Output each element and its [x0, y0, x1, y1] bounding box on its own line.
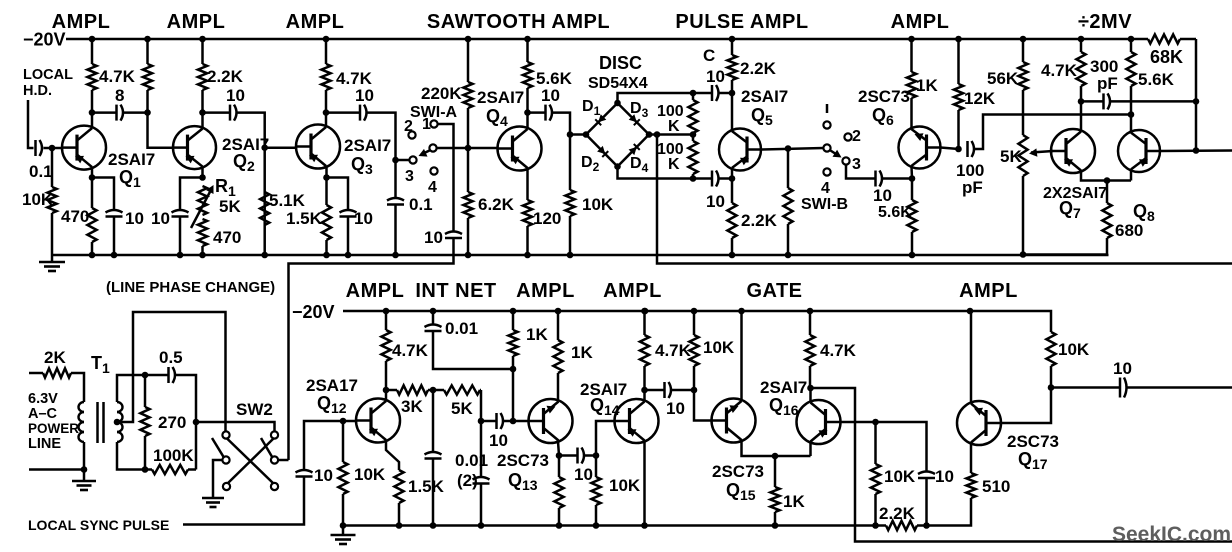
- junction on -20V rail: [465, 36, 472, 43]
- junction Q13 emitter node: [556, 452, 563, 459]
- capacitor 0.01 number two: [473, 477, 490, 484]
- label DISC: [599, 53, 642, 73]
- junction Q4 base node: [465, 145, 472, 152]
- capacitor 10 Q3 coupling: [360, 105, 367, 121]
- junction on -20V rail: [955, 36, 962, 43]
- contact mid-right of SW2: [271, 456, 278, 463]
- svg-text:2.2K: 2.2K: [740, 59, 777, 78]
- svg-text:10K: 10K: [582, 195, 614, 214]
- contact bottom-right of SW2: [271, 483, 278, 490]
- resistor 10K Q17: [1046, 332, 1055, 388]
- junction on lower rail: [510, 308, 517, 315]
- resistor 120 Q4 emitter: [523, 169, 532, 255]
- svg-text:10: 10: [541, 86, 560, 105]
- svg-text:6.2K: 6.2K: [478, 195, 515, 214]
- wire local h.d. input drop: [28, 100, 34, 148]
- svg-text:AMPL: AMPL: [603, 280, 662, 302]
- svg-text:4.7K: 4.7K: [820, 341, 857, 360]
- junction common emitter node: [1104, 177, 1111, 184]
- svg-text:0.5: 0.5: [159, 348, 183, 367]
- wire lower -20V rail: [343, 311, 1051, 332]
- wire cap down across rail to lower run: [289, 239, 454, 461]
- pole of SW1-A: [429, 144, 436, 151]
- svg-text:SD54X4: SD54X4: [588, 75, 648, 92]
- junction Q12 collector node: [383, 387, 390, 394]
- svg-text:Q17: Q17: [1018, 449, 1048, 472]
- wire cap feed: [481, 420, 497, 423]
- svg-text:A–C: A–C: [28, 406, 58, 422]
- svg-text:1.5K: 1.5K: [408, 477, 445, 496]
- wire cap to Q5 emitter: [718, 177, 732, 180]
- resistor 10K Q16 base: [871, 422, 880, 526]
- svg-text:Q3: Q3: [351, 154, 373, 177]
- wire cap8 right lead: [123, 111, 148, 114]
- wire primary bottom to ground: [83, 442, 86, 470]
- contact top-left of SW2: [222, 431, 229, 438]
- svg-text:POWER: POWER: [28, 421, 79, 436]
- label Q4: [486, 106, 508, 129]
- junction on -20V rail: [1128, 36, 1135, 43]
- label stage INT NET: [415, 280, 496, 302]
- label SD54X4: [588, 75, 648, 92]
- node bridge top vertex: [614, 100, 621, 107]
- junction Q1 collector node: [89, 109, 96, 116]
- capacitor C 10: [712, 85, 719, 101]
- junction on -20V rail: [199, 36, 206, 43]
- resistor 4.7K Q1 collector load: [87, 39, 96, 113]
- junction on lower rail: [967, 308, 974, 315]
- wire Q5 collector: [731, 93, 734, 130]
- capacitor 300pF: [1104, 93, 1111, 109]
- resistor 2.2K Q2 collector load: [198, 39, 207, 113]
- label 1K: [916, 76, 938, 95]
- label 0.1: [29, 162, 53, 181]
- svg-text:10K: 10K: [1058, 340, 1090, 359]
- svg-text:2SAI7: 2SAI7: [477, 88, 524, 107]
- svg-text:pF: pF: [1097, 74, 1118, 93]
- wire bypass cap to ground rail: [179, 217, 182, 255]
- label 10: [354, 209, 373, 228]
- label 56K: [987, 69, 1019, 88]
- capacitor 10 Q1 emitter bypass: [106, 210, 123, 217]
- capacitor 8 interstage: [117, 105, 124, 121]
- resistor 4.7K Q7 load: [1076, 39, 1085, 101]
- wire ground stub: [342, 526, 345, 536]
- junction 1.5K bottom: [396, 522, 403, 529]
- svg-text:H.D.: H.D.: [23, 83, 52, 99]
- label 10: [935, 467, 954, 486]
- wire Q1 collector: [91, 113, 94, 127]
- svg-text:10K: 10K: [884, 467, 916, 486]
- label 2X2SA17 pair: [1043, 185, 1107, 202]
- svg-text:AMPL: AMPL: [286, 11, 345, 33]
- wire cap10 right to Q3 base: [236, 113, 265, 255]
- diode D2: [586, 135, 618, 167]
- svg-text:T1: T1: [91, 353, 110, 376]
- label SW1-A: [410, 104, 458, 121]
- resistor 56K: [1018, 39, 1027, 135]
- label 5.1K: [269, 191, 306, 210]
- svg-text:680: 680: [1115, 221, 1143, 240]
- resistor 100K: [145, 465, 196, 474]
- svg-text:LINE: LINE: [28, 436, 61, 452]
- svg-text:2SC73: 2SC73: [858, 87, 910, 106]
- svg-text:5K: 5K: [1000, 147, 1022, 166]
- switch lever left of SW2: [212, 438, 224, 457]
- label 4.7K: [99, 67, 136, 86]
- junction on ground rail: [345, 252, 352, 259]
- label 4.7K: [820, 341, 857, 360]
- label 10: [873, 186, 892, 205]
- label R1: [215, 176, 236, 199]
- label pin 1: [422, 116, 431, 133]
- svg-text:K: K: [668, 156, 680, 173]
- junction Q5 emitter node: [729, 175, 736, 182]
- svg-text:10K: 10K: [703, 338, 735, 357]
- junction on ground rail: [465, 252, 472, 259]
- label 1K: [526, 325, 548, 344]
- label Q17: [1018, 449, 1048, 472]
- label -20V supply: [23, 30, 66, 50]
- svg-text:10: 10: [935, 467, 954, 486]
- ground at T1: [72, 481, 96, 490]
- capacitor 10 Q4 coupling: [546, 105, 553, 121]
- junction Q2 emitter: [199, 174, 206, 181]
- junction on ground rail: [89, 252, 96, 259]
- junction on ground rail: [323, 252, 330, 259]
- contact top-right of SW2: [271, 431, 278, 438]
- label 5K: [1000, 147, 1022, 166]
- label pin 3: [405, 168, 414, 185]
- label 2K: [44, 348, 66, 367]
- svg-text:2SAI7: 2SAI7: [760, 378, 807, 397]
- wire node down to Q13 base line: [512, 369, 515, 421]
- wire cap lead: [645, 389, 665, 392]
- label Q14: [590, 395, 620, 418]
- label 680: [1115, 221, 1143, 240]
- label 10K: [354, 465, 386, 484]
- resistor 5.1K: [260, 192, 269, 225]
- label 0.01: [445, 319, 478, 338]
- svg-text:Q15: Q15: [726, 480, 756, 503]
- wire cap lead left: [531, 111, 546, 114]
- wire Q4 collector: [526, 113, 529, 129]
- transistor Q15 2SC73: [711, 399, 756, 443]
- label Q13: [508, 470, 538, 493]
- wire Q13 emitter: [558, 442, 559, 456]
- label Q15: [726, 480, 756, 503]
- svg-text:6.3V: 6.3V: [28, 391, 58, 407]
- svg-text:10: 10: [489, 431, 508, 450]
- label 100: [956, 161, 984, 180]
- label pin 2: [404, 118, 413, 135]
- label 100K: [153, 446, 194, 465]
- label 1.5K: [408, 477, 445, 496]
- svg-text:10: 10: [424, 228, 443, 247]
- svg-text:AMPL: AMPL: [167, 11, 226, 33]
- svg-text:2: 2: [852, 128, 861, 145]
- svg-text:0.01: 0.01: [445, 319, 478, 338]
- wire SW2 mid-right feed: [278, 459, 288, 462]
- label Q7: [1059, 198, 1081, 221]
- label -20V lower supply: [292, 302, 335, 322]
- label 10: [424, 228, 443, 247]
- wire cap to Q12 base: [304, 421, 357, 471]
- capacitor 10 Q2 emitter bypass: [172, 210, 189, 217]
- wire Q14 collector: [643, 390, 646, 401]
- junction on -20V rail: [908, 36, 915, 43]
- svg-text:3: 3: [852, 156, 861, 173]
- contact 4 of SW1-B: [823, 168, 830, 175]
- label 1.5K: [286, 209, 323, 228]
- transistor Q13 2SC73: [528, 399, 573, 443]
- label 10 of cap C: [706, 67, 725, 86]
- svg-text:4.7K: 4.7K: [99, 67, 136, 86]
- wire bridge bottom output: [618, 167, 713, 179]
- svg-text:K: K: [668, 118, 680, 135]
- label 2SC73 Q6 type: [858, 87, 910, 106]
- junction Q17 output node: [1048, 384, 1055, 391]
- resistor 5K int net: [433, 385, 481, 394]
- wire output to cap: [1051, 386, 1120, 389]
- svg-text:2K: 2K: [44, 348, 66, 367]
- wire Q5 emitter: [731, 169, 734, 179]
- resistor 2.2K Q5 emitter: [727, 179, 736, 256]
- transistor Q8 2SA17: [1118, 130, 1161, 172]
- wire bypass cap to ground rail: [347, 217, 350, 255]
- svg-text:5.6K: 5.6K: [1138, 70, 1175, 89]
- capacitor 100pF: [968, 141, 975, 157]
- svg-text:Q4: Q4: [486, 106, 508, 129]
- wire cap to Q13 base: [503, 420, 529, 423]
- capacitor 10 Q16 base: [918, 472, 935, 479]
- wire cap8 left lead: [95, 111, 117, 114]
- wire 300pF right: [1110, 100, 1197, 103]
- junction Q6 base node: [955, 146, 962, 153]
- resistor 5.6K Q6 emitter: [907, 179, 916, 256]
- svg-text:510: 510: [982, 477, 1010, 496]
- wire emitter to bypass cap: [92, 178, 114, 211]
- wire Q12 collector: [385, 390, 388, 401]
- svg-text:0.1: 0.1: [409, 195, 433, 214]
- capacitor 10 sync coupling: [296, 470, 313, 477]
- wire 0.5 cap to right rail: [175, 375, 197, 470]
- junction on ground rail: [909, 252, 916, 259]
- label 300: [1090, 57, 1118, 76]
- transistor Q17 2SC73: [957, 401, 1002, 445]
- node Q1 base: [49, 145, 56, 152]
- label Q6: [872, 105, 894, 128]
- junction 10K bottom: [872, 522, 879, 529]
- junction on ground rail: [567, 252, 574, 259]
- junction Q4 collector node: [524, 109, 531, 116]
- wire collector takeoff to lower output: [811, 388, 1232, 542]
- wire 100pF to divider line: [974, 115, 1132, 150]
- svg-text:0.01: 0.01: [455, 451, 488, 470]
- svg-text:SWI-A: SWI-A: [410, 104, 458, 121]
- junction on ground rail: [392, 252, 399, 259]
- label LOCAL: [23, 67, 73, 83]
- capacitor 10 in line-phase run: [445, 232, 462, 239]
- svg-text:R1: R1: [215, 176, 236, 199]
- label stage GATE: [746, 280, 802, 302]
- label LINE: [28, 436, 61, 452]
- label 6.2K: [478, 195, 515, 214]
- label D2: [581, 154, 600, 174]
- svg-text:10: 10: [666, 399, 685, 418]
- label 0.1: [409, 195, 433, 214]
- label 5.6K: [878, 204, 912, 221]
- resistor 4.7K Q3 collector load: [321, 39, 330, 113]
- svg-text:10K: 10K: [609, 476, 641, 495]
- junction on lower rail: [738, 308, 745, 315]
- resistor 510 Q17 emitter: [966, 444, 975, 499]
- label 10: [125, 209, 144, 228]
- svg-text:5K: 5K: [219, 197, 241, 216]
- wire emitter to bypass cap: [327, 178, 349, 211]
- svg-text:GATE: GATE: [746, 280, 802, 302]
- junction 100K top node: [690, 90, 697, 97]
- svg-text:8: 8: [115, 86, 124, 105]
- resistor 5K potentiometer: [1018, 135, 1027, 255]
- potentiometer arrow R1: [191, 185, 214, 228]
- wire top -20V rail: [66, 38, 1148, 41]
- junction on lower rail: [555, 308, 562, 315]
- junction on -20V rail: [1020, 36, 1027, 43]
- wire to 0.5 cap: [145, 374, 169, 377]
- wire cap to bridge: [552, 113, 571, 135]
- wire Q3 emitter lead: [325, 167, 328, 178]
- wire Q3 collector: [325, 113, 328, 126]
- label 10K: [609, 476, 641, 495]
- resistor 10K bridge input load: [565, 135, 574, 256]
- svg-text:2.2K: 2.2K: [207, 67, 244, 86]
- junction primary ground: [81, 466, 88, 473]
- svg-text:4.7K: 4.7K: [392, 341, 429, 360]
- wire 300pF left: [1081, 100, 1104, 103]
- svg-text:68K: 68K: [1150, 47, 1183, 67]
- resistor 10K Q15 base: [689, 311, 698, 390]
- wire Q1 emitter lead: [91, 168, 94, 178]
- junction on -20V rail: [89, 36, 96, 43]
- wire Q16 base right: [840, 421, 876, 424]
- transistor Q12 2SA17: [355, 399, 400, 443]
- capacitor 0.5: [169, 367, 176, 383]
- svg-text:3K: 3K: [401, 397, 423, 416]
- svg-text:10: 10: [574, 465, 593, 484]
- resistor SW1-B node bias: [783, 149, 792, 256]
- svg-text:120: 120: [533, 209, 561, 228]
- wire pole of SW1-A to Q4 base: [437, 147, 498, 150]
- junction 56K chain bottom: [1020, 251, 1027, 258]
- junction Q15 base node: [691, 387, 698, 394]
- svg-text:2X2SAI7: 2X2SAI7: [1043, 185, 1107, 202]
- wire up to Q14 base: [596, 421, 615, 456]
- junction emitter join: [772, 453, 779, 460]
- svg-text:SWI-B: SWI-B: [801, 196, 848, 213]
- label 5.6K: [536, 69, 573, 88]
- junction Q3 base node: [261, 144, 268, 151]
- wire 2K to primary: [82, 373, 84, 402]
- junction at output rail top: [1193, 98, 1200, 105]
- label 470: [213, 228, 241, 247]
- wire ground stub: [51, 255, 54, 262]
- label 10: [355, 86, 374, 105]
- capacitor 0.01 number one: [425, 452, 442, 459]
- wire cap to ground rail: [432, 459, 435, 526]
- resistor 4.7K Q16 load: [805, 311, 814, 388]
- svg-text:470: 470: [61, 207, 89, 226]
- ground main rail: [39, 262, 65, 271]
- label 220K: [421, 84, 462, 103]
- svg-text:10: 10: [125, 209, 144, 228]
- svg-text:10: 10: [706, 192, 725, 211]
- svg-text:5.1K: 5.1K: [269, 191, 306, 210]
- svg-text:56K: 56K: [987, 69, 1019, 88]
- junction Q7 collector node: [1078, 98, 1085, 105]
- svg-text:2SAI7: 2SAI7: [344, 136, 391, 155]
- label 4.7K: [392, 341, 429, 360]
- svg-text:÷2MV: ÷2MV: [1078, 11, 1132, 33]
- label SW1-B: [801, 196, 848, 213]
- capacitor 10 Q3 emitter bypass: [340, 210, 357, 217]
- diode D1: [586, 103, 618, 135]
- transistor Q1 2SA17: [61, 126, 106, 170]
- switch cross arm 2 of SW2: [228, 439, 274, 484]
- junction on ground rail: [729, 252, 736, 259]
- label pin 3: [852, 156, 861, 173]
- wire pin1 to line-phase-change run: [438, 124, 454, 232]
- junction feedback takeoff: [654, 131, 661, 138]
- contact 3 of SW1-A: [409, 156, 416, 163]
- wire Q8 emitter: [1130, 171, 1133, 181]
- label D4: [630, 155, 649, 175]
- wire Q7 base to 5K wiper: [1031, 151, 1053, 153]
- label stage AMPL: [603, 280, 662, 302]
- contact 2 of SW1-B: [844, 133, 851, 140]
- wire 0.01 to 1K bottom: [433, 331, 513, 369]
- wire Q15 emitter: [742, 441, 811, 456]
- capacitor 0.1 line phase: [387, 198, 404, 205]
- svg-text:Q6: Q6: [872, 105, 894, 128]
- wire bridge top output: [618, 93, 713, 103]
- svg-text:AMPL: AMPL: [891, 11, 950, 33]
- label pin 4: [428, 179, 437, 196]
- label 2SA17 Q2 type: [222, 135, 269, 154]
- resistor 100K lower: [688, 135, 697, 179]
- label 270: [158, 413, 186, 432]
- junction Q8 collector node: [1128, 111, 1135, 118]
- resistor 6.2K: [463, 148, 472, 255]
- svg-text:12K: 12K: [964, 89, 996, 108]
- svg-text:10: 10: [314, 466, 333, 485]
- label 10K: [884, 467, 916, 486]
- label 2.2K: [741, 211, 778, 230]
- junction cap feed node: [478, 418, 485, 425]
- label 0.5: [159, 348, 183, 367]
- resistor 5.6K Q4 collector load: [523, 39, 532, 113]
- node bridge bottom vertex: [614, 163, 621, 170]
- svg-text:10: 10: [1113, 359, 1132, 378]
- resistor 10K Q12 base: [338, 421, 347, 526]
- wire cap lead: [559, 454, 578, 457]
- label 2.2K: [879, 504, 916, 523]
- transistor Q3 2SA17: [295, 125, 340, 169]
- resistor 2.2K Q5 collector load: [727, 39, 736, 93]
- wire lower ground rail left part: [343, 524, 886, 527]
- junction on lower rail: [691, 308, 698, 315]
- resistor 10K Q14 base: [591, 456, 600, 526]
